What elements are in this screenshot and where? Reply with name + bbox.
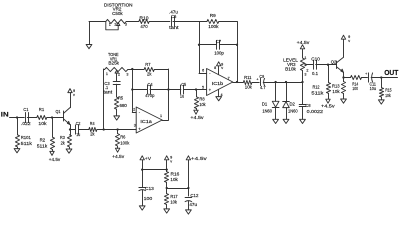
resistor R6 100k	[117, 130, 119, 134]
svg-text:7: 7	[228, 77, 230, 81]
svg-text:R2: R2	[40, 138, 46, 143]
op-amp IC1a	[136, 107, 162, 133]
Q2 collector to 9v	[343, 39, 345, 57]
power +4.5v arrow at VR3	[300, 45, 304, 49]
ground	[186, 210, 192, 214]
diode D2 1N60	[286, 82, 288, 102]
svg-text:R17: R17	[170, 194, 178, 199]
svg-text:+4.5v: +4.5v	[191, 156, 208, 161]
svg-text:1u: 1u	[180, 93, 185, 98]
svg-text:100p: 100p	[214, 50, 224, 55]
svg-text:v: v	[348, 39, 350, 43]
VR3 wiper wire	[305, 64, 307, 66]
svg-text:C13: C13	[145, 186, 154, 191]
capacitor C3 .1 tant	[113, 81, 120, 83]
Q1 emitter wire	[70, 125, 72, 130]
resistor R4 2k	[89, 127, 97, 131]
svg-text:+V: +V	[145, 156, 151, 161]
wire C1 to R1	[27, 117, 37, 119]
svg-text:.022: .022	[21, 121, 31, 126]
svg-text:R13: R13	[332, 83, 340, 88]
capacitor C2 1u	[75, 125, 77, 134]
ground	[164, 209, 170, 213]
svg-text:IC1b: IC1b	[212, 81, 224, 86]
potentiometer VR3 LEVEL B10k	[302, 71, 304, 83]
wire IC1a output	[162, 120, 168, 122]
wire node A vertical	[199, 22, 201, 74]
resistor R2 511k	[52, 118, 54, 138]
svg-text:R1: R1	[39, 107, 45, 112]
svg-text:+4.5v: +4.5v	[297, 40, 311, 45]
svg-text:1: 1	[304, 56, 306, 60]
+4.5v arrow below R6	[115, 148, 119, 152]
resistor R101 511k	[17, 118, 19, 135]
svg-text:R5: R5	[118, 96, 124, 101]
svg-text:1: 1	[160, 114, 162, 118]
svg-text:C2: C2	[76, 121, 81, 126]
svg-text:2: 2	[114, 23, 116, 27]
svg-text:R11: R11	[244, 75, 252, 80]
ground	[114, 116, 120, 120]
svg-text:3: 3	[126, 72, 128, 76]
svg-text:D1: D1	[262, 101, 268, 106]
VR1 wiper	[115, 70, 118, 73]
svg-text:1: 1	[109, 23, 111, 27]
ground	[283, 119, 289, 123]
wire from VR2 pin1 box to ground	[89, 22, 91, 45]
svg-text:v: v	[170, 159, 172, 163]
wire R4 to IC1a pin3	[97, 129, 136, 131]
resistor R13 10k	[343, 78, 345, 82]
power rail 9v	[165, 156, 169, 160]
wire VR1 pin3 to R7	[128, 69, 144, 71]
svg-text:10k: 10k	[245, 85, 253, 90]
svg-text:R12: R12	[313, 85, 321, 90]
svg-text:10k: 10k	[170, 177, 178, 182]
svg-text:0.0022: 0.0022	[307, 109, 324, 114]
wire emitter to C2	[70, 129, 75, 131]
wire R9 to node B	[219, 21, 237, 23]
svg-text:1N60: 1N60	[262, 108, 272, 113]
wire R14 to C11	[362, 77, 368, 79]
svg-text:+: +	[365, 72, 367, 76]
svg-text:2k: 2k	[61, 140, 66, 145]
svg-text:511k: 511k	[21, 141, 33, 146]
svg-text:+4.5v: +4.5v	[321, 104, 336, 109]
capacitor C13 100	[139, 187, 146, 189]
capacitor C6 .47u tant	[171, 17, 173, 26]
svg-text:IN: IN	[1, 112, 9, 119]
wire tone box left vertical	[103, 69, 105, 130]
wire emitter to R14	[344, 77, 351, 79]
IC1b pin 4 ground	[218, 89, 220, 96]
diode D1 1N60	[275, 82, 277, 101]
ground	[341, 99, 347, 103]
op-amp IC1b	[207, 69, 233, 96]
svg-text:10k: 10k	[38, 121, 47, 126]
wire R16 R17 node	[166, 182, 168, 193]
svg-text:1u: 1u	[76, 132, 80, 137]
svg-text:D2: D2	[290, 101, 296, 106]
svg-text:R15: R15	[385, 88, 392, 93]
svg-text:C1: C1	[23, 107, 29, 112]
ground	[216, 97, 222, 101]
resistor R3 2k	[70, 130, 72, 135]
svg-text:511k: 511k	[311, 91, 324, 96]
capacitor C1 .022	[25, 113, 27, 123]
svg-text:511k: 511k	[37, 143, 48, 148]
svg-text:3: 3	[125, 23, 127, 27]
svg-text:1: 1	[106, 72, 108, 76]
svg-text:47u: 47u	[189, 202, 197, 207]
wire C11 to OUT	[371, 77, 397, 79]
resistor R5 680	[114, 97, 118, 109]
wire R10 to C6	[149, 21, 170, 23]
svg-text:C4: C4	[148, 82, 154, 87]
svg-text:3: 3	[134, 123, 136, 127]
svg-text:C50k: C50k	[112, 11, 123, 16]
capacitor C7 100p	[199, 44, 217, 46]
svg-text:0.1: 0.1	[312, 71, 319, 76]
svg-text:C9: C9	[259, 74, 264, 79]
wire C9 to VR3/C8 node	[263, 82, 302, 84]
wire IC1b output	[233, 82, 244, 84]
svg-text:470p: 470p	[145, 93, 155, 98]
svg-text:tant: tant	[169, 25, 179, 30]
resistor R1 10k	[37, 115, 47, 119]
svg-text:4.7: 4.7	[260, 85, 266, 90]
svg-text:6: 6	[202, 69, 204, 73]
svg-text:100: 100	[144, 196, 153, 201]
wire VR2 to R10	[126, 21, 139, 23]
svg-text:OUT: OUT	[384, 68, 399, 77]
+4.5v arrow below R12	[326, 99, 330, 103]
svg-text:tant: tant	[103, 89, 113, 94]
svg-text:10k: 10k	[199, 102, 206, 107]
svg-text:R9: R9	[210, 13, 217, 18]
+4.5v arrow below R8	[194, 110, 198, 114]
capacitor C12 47u	[185, 197, 192, 199]
svg-text:Q1: Q1	[56, 109, 62, 114]
svg-text:10k: 10k	[170, 199, 177, 204]
svg-text:470: 470	[140, 24, 148, 29]
svg-text:C12: C12	[190, 193, 199, 198]
resistor R15 10k	[381, 78, 383, 88]
wire +V to 9v rail	[142, 169, 167, 171]
ground	[86, 45, 92, 49]
wire C5 to IC1b pin5	[184, 89, 207, 91]
ground	[300, 119, 306, 123]
svg-text:v: v	[73, 93, 75, 97]
wire pin2 vertical	[132, 69, 134, 112]
Q1 collector to 9v	[70, 93, 72, 108]
svg-text:100k: 100k	[208, 24, 219, 29]
svg-text:+4.5v: +4.5v	[49, 157, 61, 162]
svg-text:1N60: 1N60	[288, 108, 298, 113]
wire C3 to R5	[116, 84, 118, 97]
svg-text:10u: 10u	[370, 86, 377, 91]
svg-text:C6: C6	[171, 14, 177, 19]
resistor R12 511k	[328, 65, 330, 83]
svg-text:C7: C7	[216, 39, 222, 44]
wire C10 to Q2 base	[316, 64, 337, 66]
resistor R17 10k	[164, 194, 168, 205]
svg-text:B10k: B10k	[285, 66, 297, 71]
ground	[273, 119, 279, 123]
ground	[14, 149, 20, 153]
svg-text:680: 680	[120, 103, 128, 108]
svg-text:2: 2	[306, 69, 308, 73]
svg-text:B25k: B25k	[108, 61, 119, 66]
svg-text:+4.5v: +4.5v	[190, 115, 204, 120]
capacitor C10 0.1	[313, 60, 315, 69]
resistor R7 2k	[144, 67, 154, 71]
potentiometer VR2 DISTORTION C50k	[106, 19, 126, 23]
wire node B vertical	[237, 22, 239, 83]
resistor R14 100	[351, 75, 362, 79]
svg-text:R6: R6	[120, 134, 126, 139]
svg-text:C5: C5	[181, 82, 187, 87]
svg-text:100: 100	[352, 86, 358, 91]
+4.5v arrow below R2	[50, 151, 54, 155]
svg-text:v: v	[221, 66, 223, 70]
svg-text:IC1a: IC1a	[140, 119, 152, 124]
ground	[378, 100, 384, 104]
resistor R9 100k	[199, 21, 207, 23]
svg-text:C10: C10	[311, 57, 320, 62]
resistor R16 10k	[164, 172, 168, 183]
svg-text:2: 2	[133, 108, 135, 112]
svg-text:R101: R101	[21, 135, 32, 140]
wire IN to C1	[10, 117, 25, 119]
resistor R8 10k	[196, 90, 198, 97]
svg-text:R16: R16	[171, 172, 180, 177]
wire C6 to node A	[173, 21, 199, 23]
svg-text:5: 5	[202, 85, 204, 89]
potentiometer VR1 TONE B25k	[105, 67, 128, 71]
svg-text:R7: R7	[145, 62, 151, 67]
svg-text:10k: 10k	[332, 89, 340, 94]
svg-text:+4.5v: +4.5v	[112, 154, 125, 159]
svg-text:8: 8	[214, 66, 216, 70]
capacitor C8 0.0022	[302, 82, 304, 104]
svg-text:C8: C8	[306, 103, 312, 108]
Q2 emitter wire	[343, 72, 345, 77]
ground	[66, 149, 72, 153]
power rail +4.5v	[186, 156, 190, 160]
resistor R11 10k	[243, 80, 252, 84]
wire R11 to C9	[252, 82, 259, 84]
power rail +V	[140, 156, 144, 160]
svg-text:10k: 10k	[385, 93, 391, 98]
wire R1 to Q1 base	[47, 117, 64, 119]
wire C2 to R4	[78, 129, 88, 131]
resistor R10 470	[139, 19, 149, 23]
wire R7 to feedback corner	[154, 69, 168, 71]
svg-text:R4: R4	[90, 121, 95, 126]
capacitor C5 1u	[168, 89, 181, 91]
ground	[139, 206, 145, 210]
svg-text:100k: 100k	[120, 141, 130, 146]
svg-text:3: 3	[304, 72, 306, 76]
svg-text:R10: R10	[139, 16, 149, 21]
capacitor C4 470p	[132, 89, 147, 91]
svg-text:+: +	[256, 78, 258, 82]
IC1b pin 8 power	[218, 66, 220, 75]
